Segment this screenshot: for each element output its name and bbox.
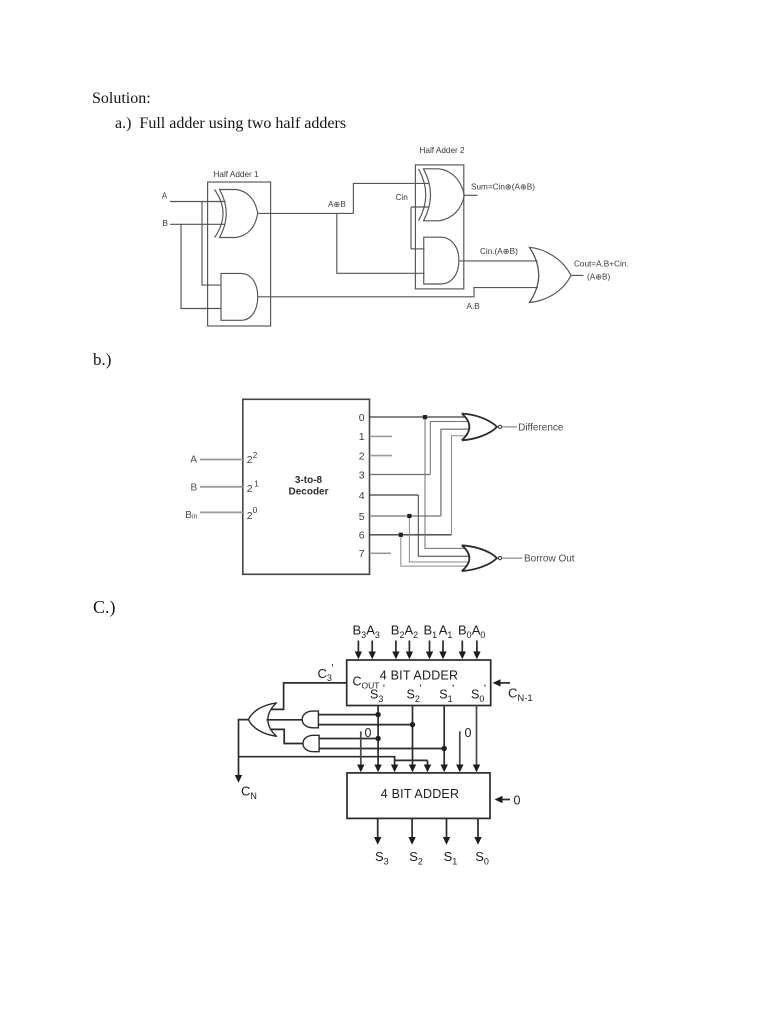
wire arrow input A3 (369, 641, 376, 660)
wire arrow correction branch1 (391, 760, 398, 772)
svg-text:7: 7 (359, 548, 365, 560)
xor gate U3 input arc (419, 169, 426, 221)
svg-text:B1A1: B1A1 (424, 623, 453, 641)
svg-text:5: 5 (359, 511, 365, 523)
svg-text:Bin: Bin (185, 510, 197, 521)
wire output 1 stub (370, 435, 393, 437)
svg-text:3-to-8: 3-to-8 (295, 475, 323, 486)
junction on output 0 (423, 415, 427, 419)
or gate U5 body (529, 247, 571, 302)
wire output 0 (370, 416, 467, 418)
junction S3 upper (375, 712, 380, 717)
wire or output to CN arrow (235, 720, 249, 783)
wire input Bin (200, 511, 243, 513)
svg-text:4 BIT ADDER: 4 BIT ADDER (381, 787, 459, 801)
wire arrow input B1 (426, 641, 433, 660)
svg-text:CN-1: CN-1 (508, 686, 533, 704)
wire riser 3 to difference (430, 422, 469, 475)
wire arrow input B0 (459, 641, 466, 660)
wire and2 bottom input from S1 (319, 748, 444, 750)
wire arrow S3 vertical (374, 706, 381, 773)
wire output 7 stub (370, 552, 392, 554)
wire Cin to AND2 (411, 248, 425, 250)
and gate U2 (221, 273, 258, 320)
wire arrow input B2 (392, 641, 399, 660)
wire arrow output S1 (443, 818, 450, 844)
wire output 6 (370, 534, 452, 536)
svg-text:1: 1 (359, 431, 365, 443)
wire riser 6 to difference (452, 436, 468, 535)
svg-text:B0A0: B0A0 (458, 623, 485, 641)
decoder box (243, 399, 370, 574)
svg-text:4 BIT ADDER: 4 BIT ADDER (380, 668, 458, 682)
wire and1 top input from S3 (318, 714, 378, 716)
or gate mirrored (248, 703, 276, 736)
xor gate U3 body (424, 169, 465, 221)
wire A branch to AND (202, 202, 221, 286)
svg-text:Sum=Cin⊕(A⊕B): Sum=Cin⊕(A⊕B) (471, 182, 535, 191)
wire drop 6 to borrow (401, 535, 468, 566)
svg-text:S1: S1 (444, 849, 458, 867)
svg-text:3: 3 (359, 469, 365, 481)
wire arrow zero carry (495, 796, 510, 803)
wire arrow S2 vertical (409, 706, 416, 773)
svg-text:Decoder: Decoder (288, 487, 328, 498)
svg-text:6: 6 (359, 530, 365, 542)
junction S2 (410, 722, 415, 727)
wire arrow input A2 (406, 641, 413, 660)
svg-text:21: 21 (247, 479, 259, 496)
wire arrow output S3 (374, 818, 381, 844)
wire Sum output (464, 194, 477, 196)
svg-text:B3A3: B3A3 (353, 623, 380, 641)
wire arrow input B3 (355, 641, 362, 660)
wire C3' from COUT to OR (271, 683, 347, 710)
svg-text:Borrow Out: Borrow Out (524, 554, 575, 565)
svg-text:0: 0 (514, 794, 521, 808)
wire Cin vertical (410, 207, 412, 249)
svg-text:2: 2 (359, 450, 365, 462)
svg-text:B: B (162, 219, 168, 228)
or gate borrow body (462, 545, 497, 571)
node difference output (498, 425, 501, 428)
svg-text:Cout=A.B+Cin.: Cout=A.B+Cin. (574, 259, 629, 268)
wire arrow zero bit0 (456, 731, 463, 772)
wire arrow zero bit3 (357, 731, 364, 772)
wire or lower input from and2 (271, 729, 304, 743)
svg-text:S0': S0' (471, 683, 486, 704)
svg-text:(A⊕B): (A⊕B) (587, 272, 611, 281)
svg-text:CN: CN (241, 784, 257, 802)
node borrow output (498, 557, 501, 560)
or gate borrow input arc (462, 545, 470, 571)
4 bit adder 1 box (347, 660, 491, 706)
wire drop 5 to borrow (409, 516, 469, 562)
wire correction bus from or output (239, 757, 428, 761)
wire difference output (502, 426, 517, 428)
xor gate U1 input arc (215, 190, 224, 238)
wire input A (170, 201, 226, 203)
svg-text:S0: S0 (475, 849, 489, 867)
svg-text:S2: S2 (409, 849, 423, 867)
junction on output 5 (407, 514, 411, 518)
wire input A (200, 459, 243, 461)
wire riser 5 to difference (441, 429, 470, 516)
wire arrow input A1 (439, 641, 446, 660)
wire and1 bottom input from S2 (318, 724, 412, 726)
half-adder 2 box (415, 165, 463, 289)
junction on output 6 (399, 533, 403, 537)
svg-text:0: 0 (465, 726, 472, 740)
svg-text:Half Adder 1: Half Adder 1 (214, 170, 260, 179)
svg-text:0: 0 (359, 412, 365, 424)
svg-text:S2': S2' (407, 683, 422, 704)
wire arrow S0 vertical (473, 706, 480, 773)
junction S3 lower (375, 736, 380, 741)
half-adder 1 box (208, 182, 271, 326)
svg-text:Difference: Difference (518, 423, 564, 434)
wire and2 top input from S3 (319, 738, 378, 740)
or gate U5 input arc (529, 247, 538, 302)
svg-text:C3': C3' (318, 662, 334, 683)
svg-text:A⊕B: A⊕B (328, 200, 346, 209)
wire arrow S1 vertical (441, 706, 448, 773)
wire output 3 (370, 474, 431, 476)
wire input B (200, 486, 243, 488)
svg-text:B: B (191, 483, 198, 494)
wire arrow input A0 (473, 641, 480, 660)
svg-text:A: A (162, 192, 168, 201)
wire arrow correction branch2 (424, 760, 431, 772)
4 bit adder 2 box (347, 773, 490, 819)
wire arrow output S0 (474, 818, 481, 844)
svg-text:S3: S3 (375, 849, 389, 867)
svg-text:A: A (190, 455, 197, 466)
or gate difference body (462, 414, 497, 441)
svg-text:22: 22 (247, 450, 258, 466)
and gate lower mirrored (303, 735, 319, 751)
svg-text:20: 20 (247, 505, 258, 522)
wire XOR1 output A xor B (258, 212, 354, 214)
wire riser to half adder 2 XOR (353, 183, 428, 213)
junction S1 (442, 746, 447, 751)
wire arrow output S2 (408, 818, 415, 844)
wire output 5 (370, 515, 441, 517)
wire drop 0 to borrow (425, 417, 466, 548)
svg-text:A.B: A.B (467, 302, 481, 311)
and gate upper mirrored (302, 711, 318, 728)
wire output 4 (370, 494, 419, 496)
svg-text:0: 0 (365, 726, 372, 740)
or gate difference input arc (462, 414, 470, 441)
wire drop 4 to borrow (418, 495, 470, 556)
wire and1 output to or (267, 719, 303, 721)
xor gate U1 body (220, 190, 258, 238)
svg-text:Cin.(A⊕B): Cin.(A⊕B) (480, 247, 518, 256)
svg-text:4: 4 (359, 490, 365, 502)
svg-text:Half Adder 2: Half Adder 2 (420, 146, 466, 155)
wire Cin to XOR2 (411, 206, 429, 208)
wire B branch to AND (181, 224, 221, 308)
svg-text:B2A2: B2A2 (391, 623, 418, 641)
wire input B (170, 223, 226, 225)
wire drop to half adder 2 AND (337, 213, 425, 273)
and gate U4 (424, 237, 459, 284)
svg-text:S1': S1' (439, 683, 454, 704)
wire output 2 stub (370, 455, 393, 457)
wire arrow CN-1 (493, 679, 510, 686)
wire borrow output (502, 557, 523, 559)
wire Cout output (571, 274, 584, 276)
wire AND2 output (459, 260, 538, 262)
wire A.B from AND1 to OR (258, 288, 538, 297)
svg-text:Cin: Cin (396, 193, 409, 202)
